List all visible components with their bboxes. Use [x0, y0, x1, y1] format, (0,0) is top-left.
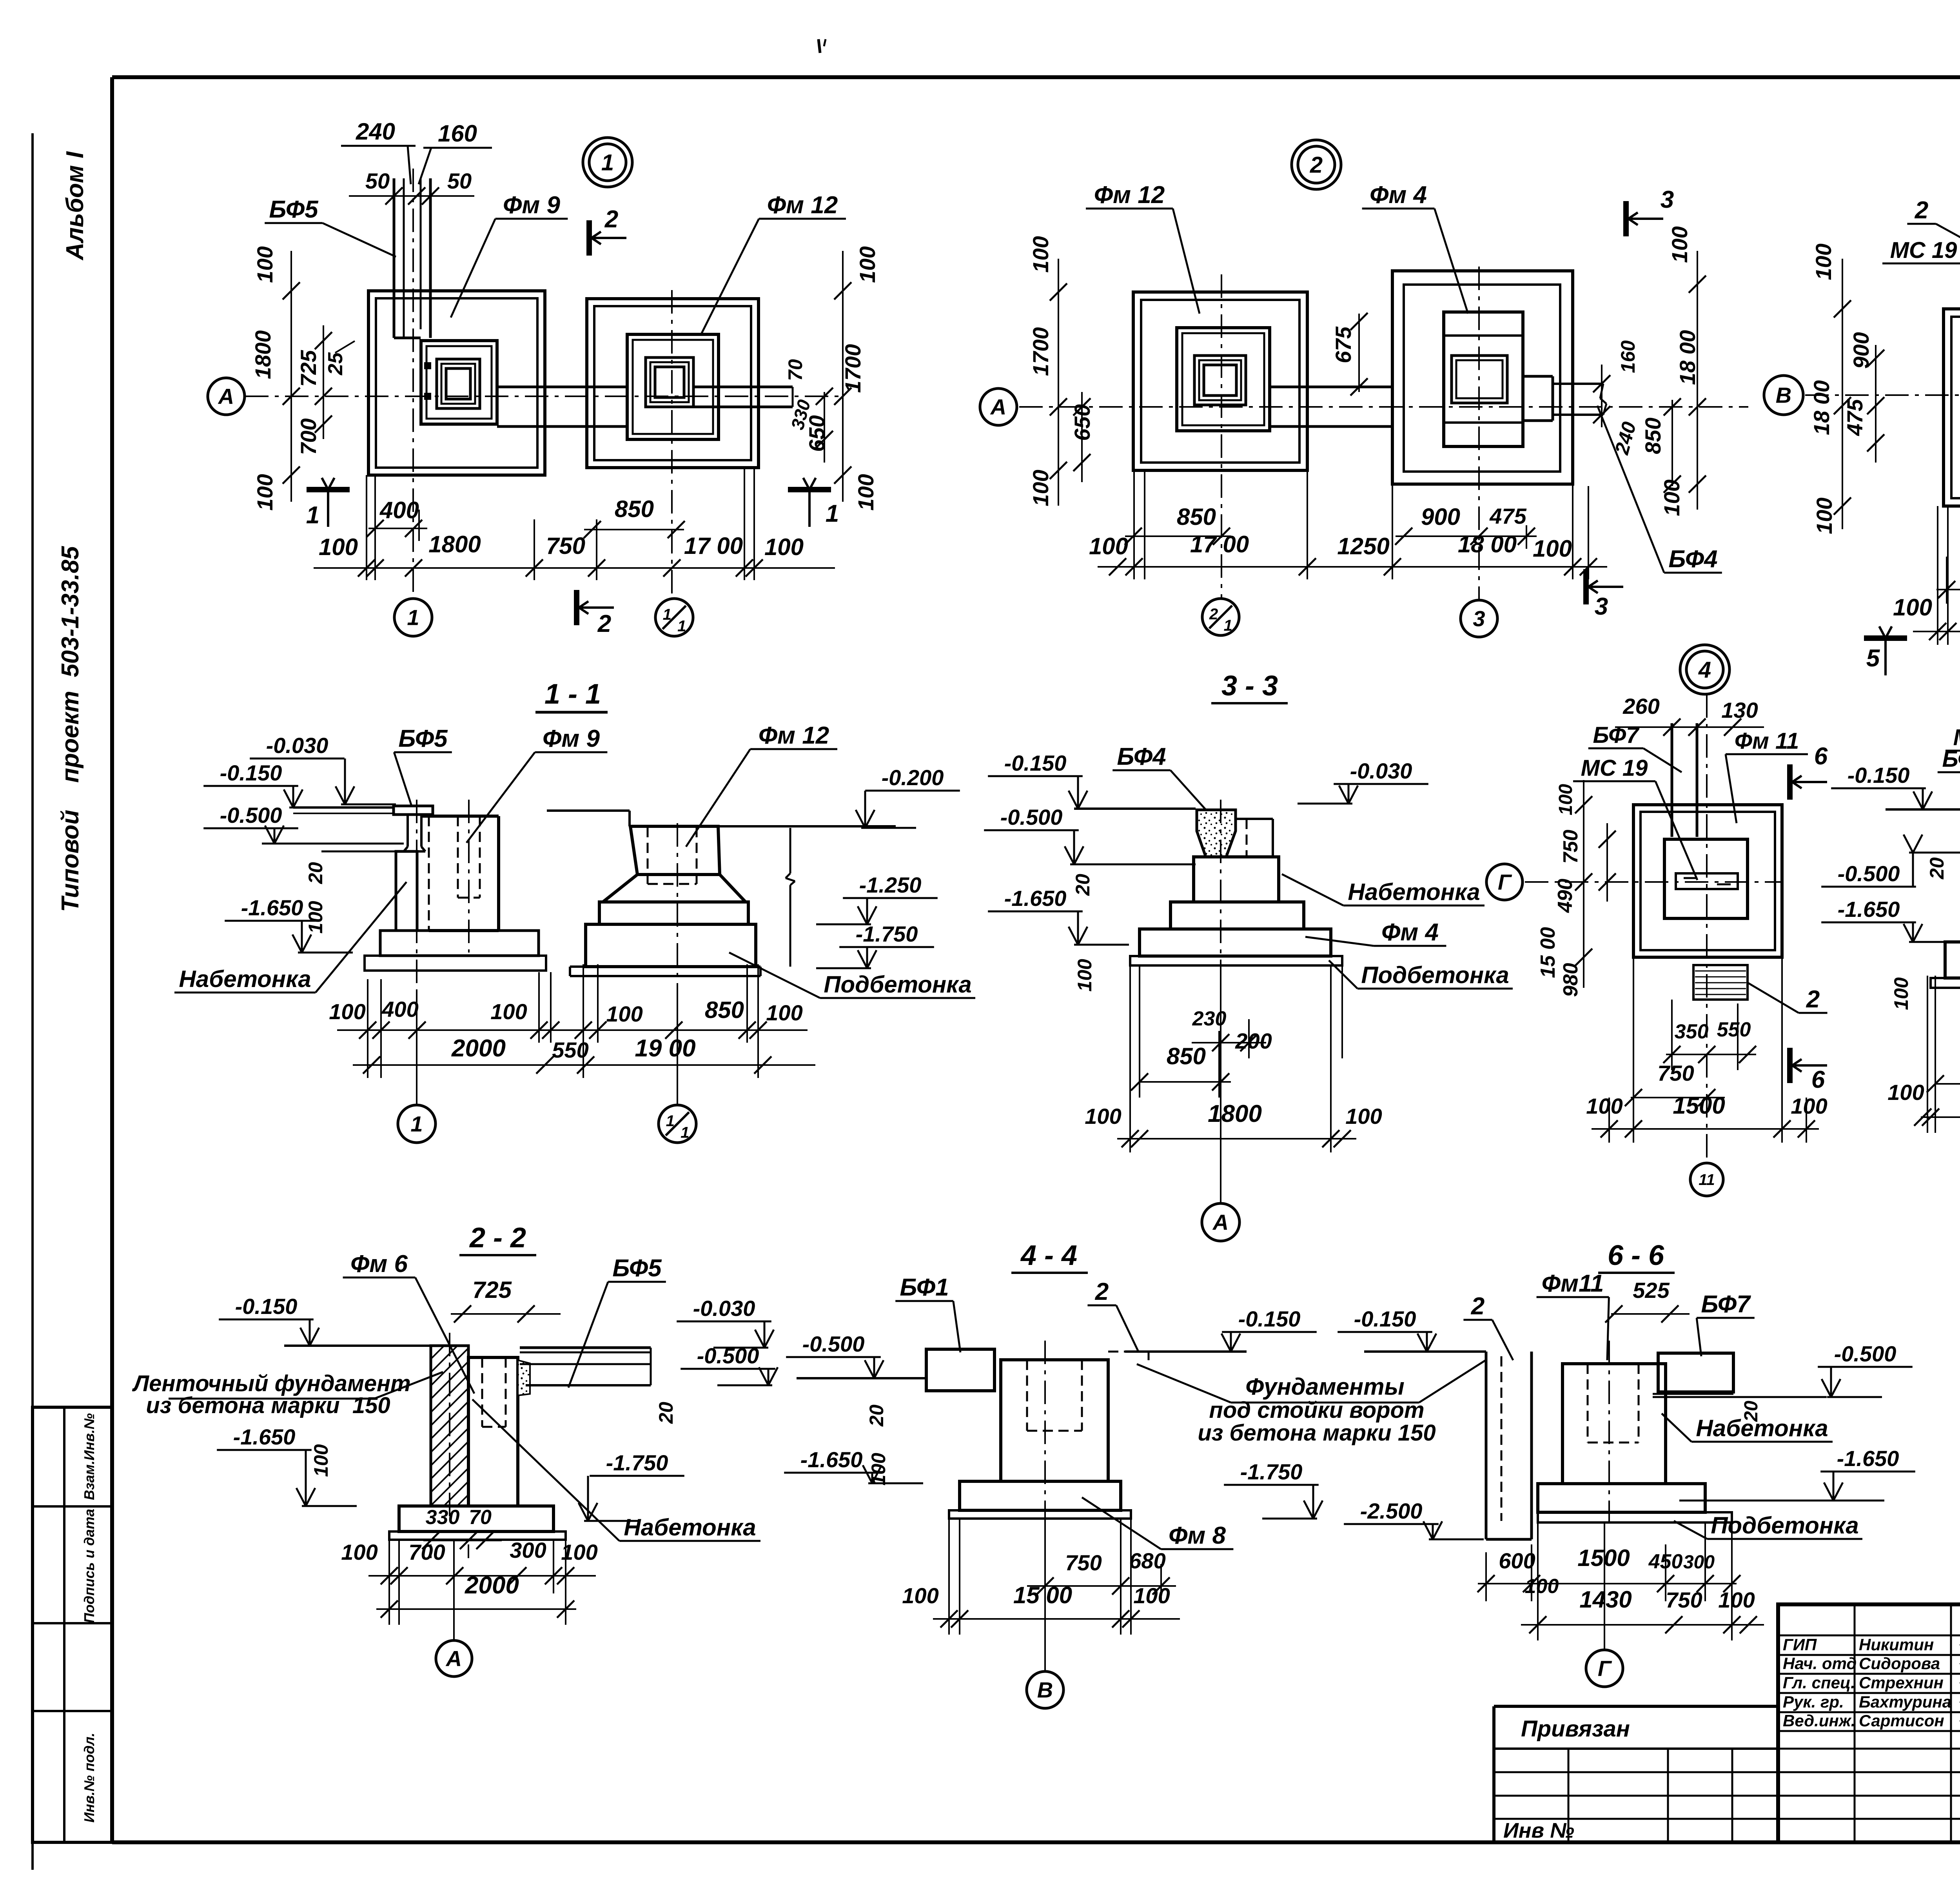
s55 dim 100 v: [1890, 977, 1912, 1010]
svg-text:20: 20: [305, 862, 327, 884]
svg-text:18 00: 18 00: [1458, 531, 1517, 557]
title block signature texts: [1783, 1635, 1960, 1730]
svg-text:5: 5: [1866, 645, 1880, 672]
svg-text:Привязан: Привязан: [1521, 1716, 1630, 1742]
svg-text:50: 50: [365, 169, 390, 193]
node 1 left dim chain 2: [315, 325, 332, 439]
s11 Fm12 step: [599, 902, 748, 924]
s66 podbetonka label: [1674, 1512, 1862, 1539]
svg-text:Фм 11: Фм 11: [1735, 728, 1799, 754]
svg-text:из бетона марки 150: из бетона марки 150: [1198, 1420, 1436, 1446]
svg-text:750: 750: [546, 533, 585, 559]
s33 dim 850: [1131, 1043, 1231, 1091]
svg-text:725: 725: [472, 1277, 512, 1303]
svg-text:-0.150: -0.150: [220, 760, 282, 785]
svg-text:550: 550: [1717, 1018, 1751, 1041]
level -0.200 s11: [856, 765, 960, 828]
svg-text:-1.750: -1.750: [856, 922, 918, 946]
svg-text:2 - 2: 2 - 2: [469, 1222, 526, 1254]
node 1 marker circle: [583, 138, 632, 187]
level -0.150 s22: [219, 1294, 361, 1346]
svg-text:2: 2: [1471, 1293, 1485, 1320]
section mark 3 bottom: [1586, 569, 1623, 620]
s22 dim row labels: [341, 1538, 597, 1564]
s11 right level dim line: [786, 828, 795, 967]
s11 dim row 1: [337, 1022, 808, 1039]
node 3 bottom dim chain: [1913, 623, 1960, 640]
svg-text:-1.650: -1.650: [800, 1447, 863, 1472]
s22 BF5 label: [568, 1255, 666, 1388]
s44 podbetonka: [949, 1510, 1131, 1519]
s66 step top extension line: [1679, 1500, 1854, 1502]
level -0.150 s66: [1338, 1306, 1478, 1352]
s44 dims 750 680: [1027, 1548, 1176, 1595]
node 2 left pit outline: [1133, 292, 1307, 470]
axis 3 circle: [1461, 600, 1497, 637]
node 1 right dim chain: [834, 251, 851, 502]
svg-text:3: 3: [1473, 606, 1485, 631]
s66 axis G circle: [1586, 1650, 1623, 1687]
section 6-6 extension lines: [1486, 1522, 1732, 1640]
node 1 extension lines: [367, 468, 754, 580]
node 4 pit inner: [1641, 812, 1775, 950]
svg-text:Фм 9: Фм 9: [543, 725, 600, 752]
svg-text:475: 475: [1489, 504, 1526, 528]
s33 nabetonka label: [1282, 874, 1485, 905]
svg-text:1800: 1800: [1208, 1100, 1262, 1127]
svg-text:Взам.Инв.№: Взам.Инв.№: [81, 1413, 97, 1500]
margin text project number: [57, 546, 84, 912]
svg-text:1: 1: [677, 618, 686, 635]
svg-text:330: 330: [426, 1506, 460, 1529]
axis 1/1 centerline: [671, 290, 673, 599]
s11 foundation Fm9 block: [420, 800, 499, 953]
svg-text:100: 100: [1586, 1094, 1622, 1118]
svg-text:100: 100: [305, 901, 327, 934]
axis 1 circle: [394, 599, 432, 636]
svg-text:850: 850: [1641, 417, 1665, 454]
s11 Fm12 podbetonka: [570, 967, 760, 976]
svg-text:Фм 12: Фм 12: [1094, 181, 1165, 209]
svg-text:БФ4: БФ4: [1117, 743, 1166, 770]
svg-text:БФ5: БФ5: [269, 196, 319, 223]
svg-text:1430: 1430: [1579, 1586, 1632, 1613]
axis 2/1 circle: [1202, 599, 1239, 635]
svg-text:700: 700: [408, 1540, 445, 1564]
s22 dim row: [368, 1567, 596, 1584]
s66 Fm11 label: [1537, 1270, 1609, 1360]
svg-text:100: 100: [252, 246, 277, 283]
node 1 connecting beam: [497, 387, 627, 426]
svg-text:ГИП: ГИП: [1783, 1635, 1817, 1654]
s33 axis line: [1220, 800, 1221, 1203]
s33 column upper: [1236, 819, 1273, 857]
svg-text:БФ4: БФ4: [1668, 546, 1717, 573]
svg-text:100: 100: [1345, 1104, 1382, 1129]
level -1.650 s55: [1821, 897, 1960, 942]
node 4 extension lines: [1609, 957, 1806, 1143]
svg-text:1800: 1800: [428, 531, 481, 557]
level -0.500 s22: [681, 1343, 778, 1385]
svg-text:3 - 3: 3 - 3: [1221, 670, 1278, 702]
svg-text:100: 100: [1533, 535, 1572, 562]
s11 beam BF5 profile: [394, 806, 433, 851]
s22 dim 725: [451, 1277, 561, 1323]
anchor bolts: [425, 363, 430, 399]
section mark 6 top: [1790, 743, 1828, 800]
svg-text:350: 350: [1675, 1020, 1709, 1043]
svg-text:160: 160: [1617, 340, 1639, 373]
s11 nabetonka label: [174, 882, 407, 993]
footing Fm9 column cup: [437, 359, 480, 408]
s33 axis A circle: [1202, 1203, 1240, 1241]
svg-text:БФ5: БФ5: [398, 725, 448, 752]
footing Fm12 outline: [627, 334, 719, 439]
svg-text:1: 1: [663, 606, 671, 623]
svg-text:Фм 6: Фм 6: [350, 1250, 408, 1277]
title block signature rows: [1778, 1604, 1960, 1842]
svg-text:17 00: 17 00: [1190, 531, 1249, 557]
node 2 marker circle: [1292, 140, 1341, 189]
svg-text:БФ1: БФ1: [900, 1274, 949, 1301]
svg-text:50: 50: [447, 169, 472, 193]
svg-text:-0.500: -0.500: [220, 803, 282, 827]
section mark 3 top: [1626, 186, 1674, 236]
svg-text:1: 1: [601, 150, 614, 175]
s33 Fm4 label: [1305, 919, 1446, 946]
level -0.500 s66: [1818, 1341, 1913, 1397]
section 2-2 title: [459, 1222, 536, 1255]
svg-text:70: 70: [469, 1506, 492, 1529]
s22 axis line: [453, 1541, 455, 1640]
sheet left fold line: [31, 133, 34, 1870]
svg-text:Подбетонка: Подбетонка: [1711, 1512, 1858, 1539]
node 4 left dim chain: [1575, 780, 1592, 988]
svg-text:1 - 1: 1 - 1: [544, 679, 601, 710]
svg-text:100: 100: [1893, 594, 1932, 621]
svg-text:100: 100: [1133, 1583, 1170, 1608]
svg-text:4 - 4: 4 - 4: [1020, 1240, 1077, 1271]
axis 1 centerline: [412, 169, 414, 599]
svg-text:Г: Г: [1598, 1656, 1612, 1681]
svg-text:Типовой проект 503-1-33.85: Типовой проект 503-1-33.85: [57, 546, 84, 912]
node 1 right dim labels: [784, 246, 880, 510]
svg-text:100: 100: [1028, 470, 1053, 506]
svg-text:850: 850: [1167, 1043, 1206, 1069]
node 2 dim 850: [1125, 504, 1231, 545]
s44 dim 20: [866, 1404, 887, 1427]
svg-text:20: 20: [1926, 857, 1948, 880]
s11 nabetonka column under beam: [396, 851, 417, 931]
svg-text:Подбетонка: Подбетонка: [1361, 962, 1509, 988]
level -0.500 s11: [203, 803, 325, 844]
footing Fm12 column cup: [646, 357, 693, 407]
level -1.650 s11: [225, 895, 353, 953]
s11 BF5 label: [394, 725, 452, 806]
svg-text:20: 20: [866, 1404, 887, 1427]
node 2 footing Fm4 label: [1362, 181, 1468, 314]
node 3 element 2 label: [1907, 197, 1960, 302]
axis 3 centerline: [1478, 267, 1480, 600]
s22 beam BF5 band: [520, 1348, 651, 1385]
svg-text:100: 100: [1887, 1080, 1924, 1105]
svg-text:100: 100: [319, 534, 358, 560]
node 3 extension lines: [1938, 488, 1960, 645]
svg-text:А: А: [990, 395, 1006, 419]
svg-text:20: 20: [1072, 874, 1094, 896]
level -0.500 s33: [984, 805, 1125, 864]
node 4 Fm11 label: [1726, 728, 1808, 823]
svg-text:-0.150: -0.150: [235, 1294, 298, 1319]
top center small mark: [818, 39, 826, 53]
s44 bottom labels: [902, 1582, 1170, 1608]
s44 dim 100 v: [867, 1453, 889, 1486]
svg-text:200: 200: [1235, 1029, 1272, 1053]
svg-text:2: 2: [1310, 152, 1323, 178]
svg-text:3: 3: [1661, 186, 1674, 213]
svg-text:260: 260: [1622, 694, 1659, 719]
svg-text:Г: Г: [1498, 870, 1512, 895]
s22 strip foundation hatched wall: [431, 1333, 468, 1517]
node 4 element 2 label: [1746, 982, 1828, 1013]
s44 element 2 label: [1087, 1278, 1139, 1352]
s33 beam BF4 speckled: [1197, 810, 1236, 857]
node 2 left dim chain 2: [1073, 392, 1091, 482]
svg-text:1: 1: [826, 500, 839, 527]
section mark 2 bottom: [577, 590, 614, 637]
node 4 axis G centerline: [1525, 881, 1782, 883]
svg-text:Фм 12: Фм 12: [767, 192, 838, 219]
svg-text:1: 1: [1224, 617, 1232, 634]
s11 Fm9 label: [466, 725, 607, 843]
level -1.750 s11: [816, 922, 934, 968]
s33 Fm4 step: [1171, 902, 1304, 929]
section mark 1 bottom-left: [306, 478, 350, 529]
node 3 bottom dim labels: [1893, 594, 1960, 624]
s22 dim 100 v: [310, 1444, 332, 1477]
svg-text:1500: 1500: [1673, 1092, 1725, 1119]
node 4 axis 11 circle: [1690, 1163, 1723, 1196]
svg-text:750: 750: [1559, 830, 1582, 864]
s33 nabetonka line: [1074, 864, 1196, 866]
section 2-2 extension lines: [389, 1540, 566, 1625]
node 2 left dim chain: [1050, 259, 1067, 506]
svg-text:100: 100: [1890, 977, 1912, 1010]
svg-text:1: 1: [410, 1112, 423, 1136]
svg-text:БФ7: БФ7: [1593, 722, 1640, 748]
svg-text:100: 100: [341, 1540, 377, 1564]
s33 dim 100 v: [1074, 959, 1096, 992]
svg-text:1700: 1700: [1028, 327, 1053, 376]
section 4-4 title: [1011, 1240, 1088, 1273]
node 4 bottom labels: [1586, 1092, 1827, 1119]
s11 floor lines right: [547, 811, 896, 826]
svg-text:750: 750: [1657, 1061, 1694, 1085]
svg-text:из бетона марки 150: из бетона марки 150: [146, 1393, 390, 1418]
s33 bottom chain: [1117, 1130, 1356, 1147]
svg-text:3: 3: [1595, 593, 1608, 620]
svg-text:Инв.№ подл.: Инв.№ подл.: [81, 1733, 97, 1822]
s44 element 2 dashed: [1108, 1352, 1149, 1360]
svg-text:МС 19: МС 19: [1890, 238, 1957, 263]
node 3 MS19 label: [1882, 238, 1960, 396]
svg-text:под стойки ворот: под стойки ворот: [1209, 1397, 1424, 1423]
svg-text:1700: 1700: [840, 344, 865, 393]
node 2 right dim chain 3: [1593, 365, 1610, 427]
s11 Fm12 base: [586, 924, 756, 967]
svg-text:100: 100: [764, 534, 804, 560]
svg-text:-0.500: -0.500: [802, 1332, 865, 1356]
svg-text:Нач. отд: Нач. отд: [1783, 1654, 1857, 1673]
level -0.150 s11: [203, 760, 344, 807]
node 1 dim 50 left: [365, 169, 390, 193]
svg-text:100: 100: [1089, 533, 1128, 559]
s66 dims row1: [1477, 1545, 1740, 1592]
s22 dim 2000: [376, 1572, 576, 1618]
node 4 axis G circle: [1486, 864, 1523, 900]
svg-text:600: 600: [1499, 1548, 1535, 1573]
s33 podbetonka label: [1329, 960, 1513, 989]
node 1 right small dims: [816, 388, 833, 463]
section mark 5 left: [1864, 626, 1907, 675]
svg-text:100: 100: [1525, 1575, 1559, 1598]
svg-text:1: 1: [407, 605, 419, 630]
s44 BF1 label: [895, 1274, 960, 1352]
s11 dim row1 labels: [329, 997, 802, 1026]
svg-text:Набетонка: Набетонка: [1696, 1415, 1828, 1441]
s22 dim 20: [655, 1402, 677, 1424]
level -0.030 s22: [677, 1296, 774, 1348]
s33 dim 230 200: [1192, 1007, 1272, 1053]
svg-text:-0.200: -0.200: [882, 765, 944, 790]
s22 nabetonka label: [472, 1399, 760, 1541]
s44 column Fm8: [1001, 1360, 1108, 1481]
level -2.500 s66: [1344, 1499, 1484, 1539]
level -1.750 s22: [579, 1450, 684, 1521]
node 1 dim 50 right: [447, 169, 472, 193]
s33 podbetonka: [1130, 956, 1342, 965]
svg-text:-1.650: -1.650: [1838, 897, 1900, 922]
s33 BF4 label: [1112, 743, 1207, 811]
node 1 top small dim line: [349, 187, 474, 205]
s44 axis B circle: [1027, 1671, 1063, 1708]
node 2 dims 900 475: [1395, 504, 1537, 545]
node 2 right dim labels: [1610, 226, 1700, 516]
level -0.150 s44: [1180, 1306, 1317, 1352]
s55 dim row2: [1927, 1043, 1960, 1092]
node 3 axis B circle: [1764, 376, 1803, 415]
inv number text: [1501, 1819, 1574, 1842]
node 4 left dim labels: [1537, 784, 1582, 997]
s33 Fm4 block: [1194, 857, 1279, 902]
svg-text:Бахтурина: Бахтурина: [1859, 1693, 1951, 1711]
node 2 footing Fm12 label: [1086, 181, 1200, 314]
level -0.150 s55: [1831, 763, 1960, 809]
node 2 bottom dim labels: [1089, 531, 1572, 562]
s11 Fm12 label: [686, 722, 837, 847]
svg-text:6 - 6: 6 - 6: [1608, 1240, 1664, 1271]
node 1 dim 240: [341, 118, 416, 184]
node 1 dim 850: [584, 496, 685, 538]
s22 Fm6 block: [468, 1357, 518, 1506]
beam BF5 plan strip: [394, 178, 430, 338]
node 1 bottom dim labels: [319, 531, 804, 560]
svg-text:675: 675: [1331, 326, 1356, 363]
node 3 left dim chain: [1834, 259, 1851, 529]
s66 deep wall: [1486, 1352, 1532, 1539]
s11 dim 20: [305, 862, 327, 884]
svg-text:2000: 2000: [465, 1572, 519, 1599]
s22 step: [399, 1506, 554, 1531]
svg-text:400: 400: [379, 497, 419, 523]
svg-text:850: 850: [705, 997, 744, 1023]
s44 foundation note: [1137, 1360, 1486, 1446]
node 2 right dim chain: [1689, 251, 1706, 510]
svg-text:В: В: [1037, 1678, 1053, 1702]
left margin stamp table: [33, 1407, 112, 1842]
node 1 bottom dim chain: [314, 559, 835, 577]
level -1.250 s11: [816, 873, 938, 924]
s11 axis 1 circle: [398, 1105, 436, 1143]
node 4 dims 350 550: [1663, 1018, 1756, 1063]
svg-text:Альбом I: Альбом I: [62, 151, 89, 261]
s11 floor lines left: [262, 807, 404, 851]
s44 beam BF1: [926, 1349, 995, 1391]
node 3 dims 1000 200: [1936, 556, 1960, 598]
svg-text:4: 4: [1698, 657, 1711, 682]
svg-text:725: 725: [296, 350, 321, 386]
svg-text:Подбетонка: Подбетонка: [824, 971, 971, 998]
s66 axis line: [1604, 1341, 1609, 1649]
svg-text:400: 400: [381, 997, 418, 1022]
svg-text:100: 100: [1667, 226, 1692, 263]
svg-text:1800: 1800: [250, 330, 275, 379]
svg-text:70: 70: [784, 359, 806, 381]
footing Fm9 outline: [421, 341, 497, 424]
svg-text:1250: 1250: [1337, 533, 1389, 559]
svg-text:-1.650: -1.650: [233, 1424, 296, 1449]
s44 floor lines: [797, 1352, 1247, 1378]
svg-text:18 00: 18 00: [1809, 380, 1834, 435]
svg-text:-0.030: -0.030: [693, 1296, 755, 1321]
s55 dim 20: [1926, 857, 1948, 880]
svg-text:6: 6: [1814, 743, 1828, 770]
node 2 bottom dim chain: [1098, 558, 1607, 575]
s66 dim 525: [1605, 1278, 1690, 1323]
svg-text:980: 980: [1559, 963, 1582, 997]
s22 podbetonka: [389, 1531, 566, 1540]
node 2 extension lines: [1134, 470, 1588, 579]
s11 dim row 2: [353, 1056, 815, 1074]
s33 Fm4 base: [1140, 929, 1331, 956]
section mark 1 bottom-right: [788, 478, 839, 527]
svg-text:-1.250: -1.250: [859, 873, 922, 897]
node 4 MS19 label: [1573, 755, 1697, 880]
svg-text:100: 100: [561, 1540, 597, 1564]
s66 floor line: [1364, 1350, 1486, 1353]
s22 Fm6 label: [343, 1250, 474, 1394]
axis A centerline: [245, 396, 843, 397]
svg-text:-1.650: -1.650: [1004, 886, 1067, 911]
s66 element 2 label: [1463, 1293, 1513, 1360]
node 2 right dim chain 2: [1664, 398, 1681, 493]
level -0.030 s33: [1298, 758, 1428, 804]
node 1 left dim chain: [283, 251, 300, 502]
svg-text:БФ7: БФ7: [1701, 1291, 1751, 1318]
svg-text:100: 100: [1812, 497, 1837, 534]
s55 MS19 label: [1945, 725, 1960, 808]
s22 axis A circle: [436, 1640, 472, 1677]
